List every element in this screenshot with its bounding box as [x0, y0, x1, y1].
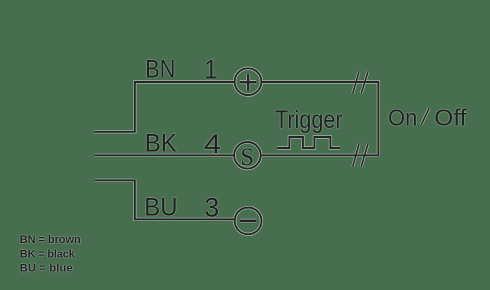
svg-text:1: 1	[204, 55, 218, 85]
svg-text:Trigger: Trigger	[275, 106, 343, 134]
svg-text:On: On	[388, 105, 417, 131]
svg-text:S: S	[240, 142, 254, 171]
svg-text:BN = brown: BN = brown	[20, 234, 81, 246]
svg-text:BN: BN	[145, 56, 175, 84]
svg-text:BK: BK	[145, 130, 177, 158]
svg-text:4: 4	[204, 129, 221, 159]
svg-text:BU = blue: BU = blue	[20, 262, 73, 274]
svg-text:BK = black: BK = black	[20, 248, 76, 260]
svg-text:3: 3	[204, 193, 219, 223]
svg-text:BU: BU	[144, 194, 177, 222]
svg-text:Off: Off	[434, 105, 467, 131]
